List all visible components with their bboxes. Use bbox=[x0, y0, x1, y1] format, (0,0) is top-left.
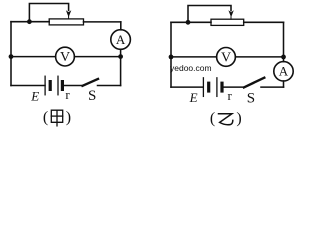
svg-text:A: A bbox=[116, 32, 126, 47]
rheostat R1 (slide rheostat box) bbox=[49, 19, 83, 25]
svg-text:r: r bbox=[65, 87, 70, 102]
svg-text:): ) bbox=[66, 109, 71, 126]
svg-text:): ) bbox=[236, 110, 241, 127]
svg-text:A: A bbox=[279, 64, 289, 79]
slider arrow of R1 bbox=[68, 16, 70, 19]
switch S (blade) bbox=[244, 78, 264, 88]
wire: top horizontal right segment bbox=[244, 21, 284, 23]
wire: middle horizontal right segment bbox=[74, 56, 120, 58]
wire: top horizontal left segment bbox=[171, 21, 211, 23]
svg-text:(: ( bbox=[210, 110, 215, 127]
battery E (two cells) bbox=[202, 78, 204, 97]
ammeter A (meter circle) bbox=[111, 30, 131, 50]
rheostat R2 (slide rheostat box) bbox=[211, 19, 244, 25]
wire: bottom left segment bbox=[171, 86, 203, 88]
wire: middle horizontal right segment bbox=[235, 56, 283, 58]
wire: battery to switch bbox=[224, 86, 244, 88]
svg-text:S: S bbox=[247, 90, 255, 106]
wire: slider loop bbox=[188, 6, 231, 23]
switch S (blade) bbox=[83, 79, 99, 86]
wire: middle horizontal left segment bbox=[171, 56, 217, 58]
wire: top horizontal right segment bbox=[84, 21, 121, 23]
node J1 (slider tap junction dot) bbox=[27, 19, 32, 24]
svg-text:E: E bbox=[30, 89, 39, 104]
svg-text:r: r bbox=[228, 88, 233, 103]
wire: right vertical bottom branch bbox=[120, 57, 122, 86]
svg-text:V: V bbox=[221, 51, 231, 66]
wire: ammeter top lead bbox=[283, 57, 285, 62]
slider arrow of R2 bbox=[230, 17, 232, 20]
svg-text:E: E bbox=[189, 90, 198, 105]
node J2 (ammeter/mid-wire junction dot) bbox=[118, 54, 123, 59]
node J4 (slider tap junction dot) bbox=[186, 20, 191, 25]
node J5 (mid-wire right junction dot) bbox=[281, 55, 286, 60]
wire: left vertical branch bbox=[10, 22, 12, 86]
svg-text:yedoo.com: yedoo.com bbox=[170, 63, 212, 73]
wire: slider loop bbox=[29, 4, 68, 22]
wire: ammeter bottom lead bbox=[120, 49, 122, 56]
wire: switch contact to right corner bbox=[98, 85, 121, 87]
battery E (two cells) bbox=[44, 76, 46, 95]
wire: ammeter top lead bbox=[120, 22, 122, 30]
ammeter A (meter circle) bbox=[274, 62, 293, 81]
wire: left vertical branch bbox=[170, 22, 172, 87]
svg-text:(: ( bbox=[43, 109, 48, 126]
wire: battery to switch bbox=[64, 85, 82, 87]
node J6 (mid-wire left junction dot) bbox=[169, 55, 174, 60]
voltmeter V (meter circle) bbox=[217, 48, 236, 67]
wire: top horizontal left segment bbox=[11, 21, 49, 23]
svg-text:S: S bbox=[88, 88, 96, 104]
voltmeter V (meter circle) bbox=[56, 47, 75, 66]
wire: bottom left segment bbox=[11, 85, 45, 87]
wire: ammeter bottom lead bbox=[283, 81, 285, 87]
wire: switch contact to right corner bbox=[261, 86, 284, 88]
wire: middle horizontal left segment bbox=[11, 56, 56, 58]
svg-text:V: V bbox=[60, 50, 70, 65]
node J3 (mid-wire left junction dot) bbox=[9, 54, 14, 59]
wire: right vertical top branch bbox=[283, 22, 285, 57]
